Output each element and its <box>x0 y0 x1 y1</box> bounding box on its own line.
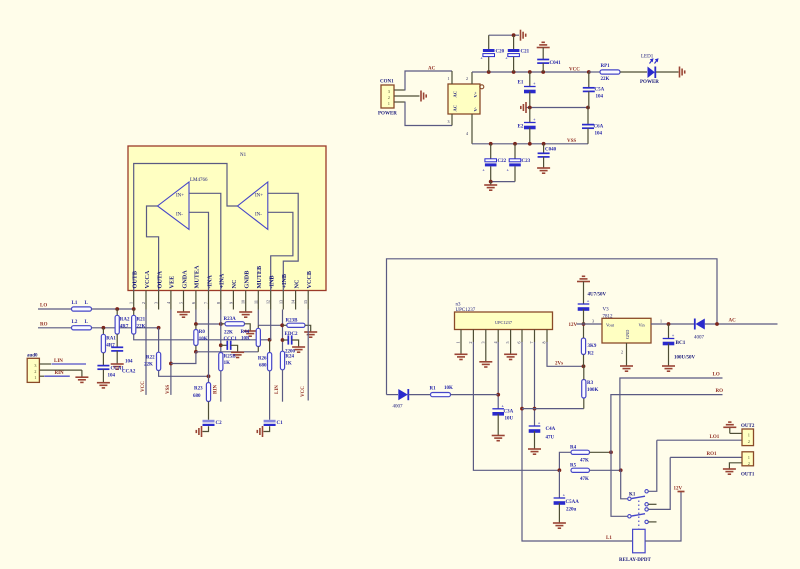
svg-text:R4: R4 <box>570 446 577 451</box>
svg-text:104: 104 <box>125 360 133 365</box>
ground (UPC pin1) <box>460 342 462 354</box>
svg-text:RA2: RA2 <box>120 318 130 323</box>
svg-text:GNDB: GNDB <box>244 271 251 289</box>
svg-text:-INA: -INA <box>206 275 213 289</box>
ground (CCA1) <box>97 383 110 388</box>
resistor R25B <box>219 353 223 371</box>
svg-text:LIN: LIN <box>275 385 280 394</box>
ground (C22/C23) <box>490 182 492 185</box>
wire VCC to RP1 <box>589 71 600 73</box>
svg-text:+INA: +INA <box>219 273 226 288</box>
wire RO to relay pole2 <box>611 395 723 453</box>
ground (R23B) <box>304 332 317 337</box>
svg-text:+: + <box>533 81 536 86</box>
svg-text:C041: C041 <box>550 61 562 66</box>
svg-text:2: 2 <box>466 76 468 81</box>
junction <box>542 142 546 146</box>
svg-text:104: 104 <box>595 132 603 137</box>
svg-text:C5AA: C5AA <box>566 500 580 505</box>
wire R24 to LIN <box>282 370 284 402</box>
svg-text:+: + <box>533 117 536 122</box>
svg-text:GNDA: GNDA <box>181 270 188 289</box>
svg-text:4: 4 <box>166 302 171 304</box>
wire relay throw2a to RO1 <box>648 457 670 509</box>
svg-text:OUT2: OUT2 <box>741 424 755 429</box>
junction <box>582 364 586 368</box>
svg-text:VCCA: VCCA <box>144 270 151 288</box>
svg-text:E1: E1 <box>518 81 524 86</box>
svg-text:100K: 100K <box>587 388 599 393</box>
capacitor C2 <box>203 420 215 423</box>
VCC rail wire <box>472 71 589 73</box>
svg-text:4R7: 4R7 <box>106 344 115 349</box>
svg-text:13: 13 <box>278 300 283 304</box>
svg-text:RELAY-DPDT: RELAY-DPDT <box>619 558 652 563</box>
junction <box>132 307 136 311</box>
LED LED1 <box>648 67 655 79</box>
resistor RA2 <box>116 309 118 315</box>
svg-text:1: 1 <box>456 342 461 344</box>
svg-text:V+: V+ <box>473 91 478 97</box>
svg-text:10: 10 <box>241 300 246 304</box>
svg-text:VCC: VCC <box>301 386 306 397</box>
svg-text:10K: 10K <box>199 337 208 342</box>
svg-text:680: 680 <box>193 394 201 399</box>
svg-text:3: 3 <box>154 302 159 304</box>
svg-text:15: 15 <box>303 300 308 304</box>
wire CON1 pin1 to bridge AC2 <box>405 102 452 126</box>
junction <box>528 70 532 74</box>
op-amp B output wire to pin OUTB (internal) <box>134 164 238 291</box>
svg-text:C5A: C5A <box>595 88 605 93</box>
diode D2 4007 (to AC) <box>694 319 696 330</box>
ground (aud0 pin2) <box>81 370 83 377</box>
svg-text:RIN: RIN <box>213 384 218 394</box>
svg-text:R1: R1 <box>430 387 437 392</box>
ground (C1) <box>257 426 262 437</box>
pin 2 of UPC1237 <box>472 330 474 343</box>
svg-text:NC: NC <box>231 280 238 289</box>
VSS rail wire <box>472 143 588 145</box>
wire LO to relay pole1 <box>620 378 723 470</box>
svg-text:AC: AC <box>729 319 737 324</box>
wire R21 bottom to -INB (long) <box>134 334 270 340</box>
svg-text:VSS: VSS <box>567 139 576 144</box>
svg-text:C6A: C6A <box>594 125 604 130</box>
wire R26 to C1 <box>269 371 271 420</box>
svg-text:IN-: IN- <box>176 213 183 218</box>
capacitor CCA1 <box>97 366 109 370</box>
bridge pin 3 (AC in bottom) <box>451 114 453 126</box>
relay coil K1 <box>633 529 646 553</box>
junction <box>587 70 591 74</box>
wire relay throw1a to LO1 <box>648 440 657 491</box>
wire UPC pin2 down to R5 rail <box>473 342 559 470</box>
svg-text:2: 2 <box>621 350 623 355</box>
resistor R1 <box>431 393 451 397</box>
svg-text:R22: R22 <box>146 356 155 361</box>
ground (CCC1) <box>231 352 244 357</box>
resistor R0 <box>195 324 197 330</box>
svg-text:+INB: +INB <box>281 274 288 289</box>
ground (GNDB pin10) <box>245 310 247 312</box>
ground (UPC pin3) <box>485 342 487 361</box>
svg-text:IN+: IN+ <box>255 194 263 199</box>
junction <box>487 70 491 74</box>
svg-text:220u: 220u <box>566 508 577 513</box>
junction <box>582 322 586 326</box>
wire relay coil to 12V <box>645 492 681 541</box>
svg-text:VCC: VCC <box>141 381 146 392</box>
svg-text:+: + <box>672 333 675 338</box>
relay dotted actuator line <box>638 501 640 530</box>
svg-text:8: 8 <box>216 302 221 304</box>
svg-text:2: 2 <box>748 439 750 444</box>
resistor RA1 <box>102 328 104 335</box>
svg-text:+: + <box>587 299 590 304</box>
svg-text:RP1: RP1 <box>601 64 611 69</box>
junction <box>115 307 119 311</box>
wire VEE down (pin4) <box>170 310 172 395</box>
svg-text:12: 12 <box>266 300 271 304</box>
resistor R22 <box>158 328 160 352</box>
svg-text:C040: C040 <box>545 148 557 153</box>
svg-text:N1: N1 <box>240 153 247 158</box>
svg-text:CON1: CON1 <box>380 80 394 85</box>
mid rail wire (between E1 and E2) <box>526 107 588 109</box>
svg-text:CCA2: CCA2 <box>122 370 136 375</box>
ground (OUT2) <box>729 428 731 434</box>
connector CON1 <box>381 85 394 108</box>
resistor R21 <box>133 309 135 315</box>
svg-text:2: 2 <box>388 95 390 100</box>
svg-text:10K: 10K <box>444 386 453 391</box>
inductor L2 <box>72 326 92 330</box>
ground (BC1) <box>662 366 675 371</box>
wire loop bottom to diode D1 <box>387 394 399 396</box>
svg-text:LM4766: LM4766 <box>190 178 208 183</box>
svg-text:LO: LO <box>713 373 720 378</box>
wire diode to R1 <box>408 394 430 396</box>
bridge rectifier B1 <box>448 84 480 114</box>
resistor R5 <box>571 468 590 472</box>
ground (EDC2) <box>292 347 305 352</box>
junction <box>512 70 516 74</box>
svg-text:R21: R21 <box>137 318 146 323</box>
svg-text:4U7/50V: 4U7/50V <box>588 293 607 298</box>
svg-text:L1: L1 <box>72 301 78 306</box>
wire LIN <box>52 363 87 365</box>
svg-text:4: 4 <box>466 131 468 136</box>
junction <box>194 350 198 354</box>
svg-text:1: 1 <box>748 455 750 460</box>
capacitor C041 <box>537 42 550 47</box>
wire UPC pin7 down <box>534 342 536 426</box>
ground (R23A) <box>244 331 257 336</box>
wire RIN <box>44 375 70 377</box>
svg-text:MUTEB: MUTEB <box>256 266 263 289</box>
svg-text:Vin: Vin <box>639 323 646 328</box>
wire -INB pin12 down <box>270 310 272 340</box>
svg-text:22K: 22K <box>144 363 153 368</box>
wire L1 to pin1 OUTB <box>92 308 134 310</box>
svg-text:4007: 4007 <box>393 405 404 410</box>
svg-text:3: 3 <box>448 119 450 124</box>
capacitor C1 <box>264 420 276 423</box>
junction <box>169 362 173 366</box>
svg-text:RO: RO <box>40 322 48 327</box>
svg-text:7: 7 <box>204 302 209 304</box>
svg-text:IN-: IN- <box>255 213 262 218</box>
svg-text:47K: 47K <box>580 459 589 464</box>
svg-text:C21: C21 <box>521 50 530 55</box>
svg-text:R24: R24 <box>285 355 294 360</box>
ground (top, sideways) <box>521 30 526 41</box>
svg-text:1: 1 <box>388 101 390 106</box>
svg-text:680: 680 <box>259 364 267 369</box>
svg-text:22K: 22K <box>601 77 610 82</box>
junction <box>533 407 537 411</box>
capacitor C21 <box>513 35 515 49</box>
resistor R2 <box>581 338 585 355</box>
junction <box>513 142 517 146</box>
OUT1 pin2 stub <box>729 463 742 469</box>
wire LED1 to ground <box>656 71 679 73</box>
junction <box>667 322 671 326</box>
svg-text:R23A: R23A <box>224 317 237 322</box>
capacitor C23 <box>514 144 516 159</box>
wire R25B to RIN <box>220 371 222 402</box>
svg-text:GND: GND <box>625 330 630 339</box>
wire C20/C21 top to ground <box>489 34 519 36</box>
wire C1 to ground <box>264 426 270 431</box>
svg-text:104: 104 <box>108 374 116 379</box>
svg-text:2: 2 <box>34 369 36 374</box>
svg-text:1: 1 <box>34 375 36 380</box>
svg-text:C22: C22 <box>498 159 507 164</box>
CON1 pin 2 stub <box>394 95 420 97</box>
pin 7 of UPC1237 <box>534 330 536 343</box>
capacitor C6A <box>587 108 589 125</box>
wire VCCB pin15 down <box>307 310 309 401</box>
svg-text:BC1: BC1 <box>676 340 686 346</box>
wire relay throw2b stub <box>648 521 656 523</box>
svg-text:9: 9 <box>228 302 233 304</box>
op-amp B wire IN+ to pin +INB (internal) <box>268 193 298 290</box>
svg-text:V3: V3 <box>603 308 610 313</box>
svg-text:+: + <box>501 403 504 408</box>
svg-text:V-: V- <box>473 107 478 112</box>
svg-text:CCA1: CCA1 <box>111 367 125 372</box>
svg-text:5: 5 <box>505 342 510 344</box>
resistor R23B <box>283 324 287 326</box>
junction <box>219 322 223 326</box>
junction <box>268 338 272 342</box>
svg-text:1: 1 <box>129 302 134 304</box>
svg-text:R5: R5 <box>570 464 577 469</box>
ground (mid, sideways) <box>521 102 526 113</box>
svg-text:6: 6 <box>191 302 196 304</box>
wire UPC pin6 down to relay coil <box>522 342 633 541</box>
pin 1 of UPC1237 <box>460 330 462 343</box>
junction <box>207 374 211 378</box>
pin 3 of UPC1237 <box>485 330 487 343</box>
svg-text:RO1: RO1 <box>707 452 718 457</box>
capacitor CCA2 <box>111 347 123 351</box>
wire +INA pin8 column <box>220 310 222 353</box>
svg-text:3: 3 <box>592 319 594 324</box>
wire R1 to UPC pin4 <box>451 394 499 396</box>
svg-text:1: 1 <box>660 319 662 324</box>
ground (OUT1) <box>723 469 736 474</box>
svg-text:4: 4 <box>493 342 498 344</box>
junction <box>157 326 161 330</box>
wire LO1 <box>657 439 742 441</box>
svg-text:AC: AC <box>453 105 458 112</box>
wire R23A right to ground <box>245 324 251 331</box>
wire V3 Vin <box>651 323 694 325</box>
junction <box>609 450 613 454</box>
OUT2 pin1 stub <box>730 432 742 434</box>
pin 4 of UPC1237 <box>497 330 499 343</box>
electrolytic capacitor E1 <box>529 72 531 86</box>
svg-text:47U: 47U <box>546 436 555 441</box>
wire relay throw1b stub <box>648 503 656 505</box>
svg-text:2: 2 <box>141 302 146 304</box>
capacitor C20 <box>488 35 490 49</box>
svg-text:OUTB: OUTB <box>132 271 139 289</box>
op-amp B wire IN- to pin -INB (internal) <box>268 212 293 290</box>
wire MUTEB pin11 down <box>257 310 259 326</box>
svg-text:C1: C1 <box>277 421 284 426</box>
svg-text:1: 1 <box>448 76 450 81</box>
ground (GNDA pin5) <box>183 310 185 312</box>
svg-text:LED1: LED1 <box>641 55 654 60</box>
svg-text:R2: R2 <box>588 352 595 357</box>
svg-text:12V: 12V <box>569 323 578 328</box>
svg-text:C3A: C3A <box>504 410 514 415</box>
wire R0 bottom to R44 bottom <box>196 351 258 353</box>
svg-text:4R7: 4R7 <box>120 325 129 330</box>
svg-text:5: 5 <box>179 302 184 304</box>
diode D1 4007 <box>398 389 408 400</box>
svg-text:C23: C23 <box>522 159 531 164</box>
bridge pin 1 (AC in top) <box>451 71 453 84</box>
op-amp A wire IN- to pin -INA (internal) <box>189 212 209 290</box>
svg-text:3: 3 <box>480 342 485 344</box>
svg-text:10U: 10U <box>505 417 514 422</box>
svg-text:+: + <box>563 493 566 498</box>
svg-text:UPC1237: UPC1237 <box>495 320 513 325</box>
svg-text:6: 6 <box>517 342 522 344</box>
svg-text:+: + <box>538 421 541 426</box>
inductor L1 <box>72 307 92 311</box>
wire loop (UPC1237 feedback) <box>387 259 718 395</box>
svg-text:Vout: Vout <box>606 323 615 328</box>
connector OUT1 <box>742 452 754 466</box>
capacitor C22 <box>490 144 492 159</box>
wire R0 node to VEE <box>171 352 196 364</box>
svg-text:R44: R44 <box>241 330 250 335</box>
junction <box>528 142 532 146</box>
svg-text:R23B: R23B <box>286 319 299 324</box>
wire 12V to V3 Vout <box>577 323 603 325</box>
junction <box>496 393 500 397</box>
bridge pin 4 (V-) <box>471 114 473 144</box>
capacitor CCC1 <box>221 344 228 346</box>
svg-text:L1: L1 <box>606 536 612 541</box>
svg-text:E2: E2 <box>518 125 524 130</box>
svg-text:VCC: VCC <box>569 68 580 73</box>
svg-text:104: 104 <box>596 95 604 100</box>
junction <box>280 323 284 327</box>
op-amp U1A triangle <box>158 182 190 229</box>
svg-text:n3: n3 <box>456 303 462 308</box>
power symbol 12V <box>678 491 685 493</box>
svg-text:C20: C20 <box>496 50 505 55</box>
wire UPC pin4 down <box>497 342 499 409</box>
svg-text:RO: RO <box>716 389 724 394</box>
wire pin11 to pin13 node <box>258 324 282 326</box>
CON1 pin 1 stub <box>394 101 405 103</box>
resistor R26 <box>269 340 271 353</box>
svg-text:2: 2 <box>748 461 750 466</box>
wire AC top (CON1 pin3 to bridge) <box>405 71 452 91</box>
svg-text:R0: R0 <box>199 330 206 335</box>
op-amp A output wire (internal) <box>147 206 159 291</box>
svg-text:VCCB: VCCB <box>306 271 313 289</box>
svg-text:+: + <box>507 167 510 172</box>
resistor R24 <box>280 351 284 370</box>
svg-text:+: + <box>482 167 485 172</box>
svg-text:C4A: C4A <box>546 427 556 432</box>
aud0 pin 3 stub <box>39 363 51 365</box>
svg-text:IN+: IN+ <box>176 194 184 199</box>
capacitor C5AA <box>558 470 560 498</box>
op-amp A wire IN+ to pin +INA (internal) <box>189 193 221 290</box>
V3 GND pin to ground <box>626 343 628 366</box>
svg-text:47K: 47K <box>580 477 589 482</box>
wire C23 bottom to C22 bottom <box>491 181 515 183</box>
svg-text:RA1: RA1 <box>106 337 116 342</box>
junction <box>281 338 285 342</box>
svg-text:1K: 1K <box>285 362 292 367</box>
svg-text:10R: 10R <box>241 337 250 342</box>
svg-text:AC: AC <box>453 91 458 98</box>
svg-text:R26: R26 <box>258 357 267 362</box>
wire C2 to ground <box>203 426 209 431</box>
resistor R44 <box>257 325 259 328</box>
svg-text:22K: 22K <box>137 325 146 330</box>
svg-text:AC: AC <box>428 67 436 72</box>
junction <box>489 142 493 146</box>
aud0 pin 1 stub <box>39 375 44 377</box>
svg-text:LO: LO <box>40 304 47 309</box>
capacitor C5A <box>588 72 590 88</box>
svg-text:22K: 22K <box>224 331 233 336</box>
resistor R23 <box>206 383 210 402</box>
svg-text:VSS: VSS <box>166 385 171 394</box>
op-amp U1B triangle <box>238 182 268 229</box>
capacitor BC1 <box>668 324 670 338</box>
resistor R3 <box>583 398 585 409</box>
pin 8 of UPC1237 <box>546 330 548 343</box>
junction <box>194 322 198 326</box>
svg-text:8: 8 <box>542 342 547 344</box>
resistor R4 <box>559 452 571 470</box>
svg-text:C2: C2 <box>216 421 223 426</box>
wire L2 to pin3 OUTA <box>92 327 159 329</box>
